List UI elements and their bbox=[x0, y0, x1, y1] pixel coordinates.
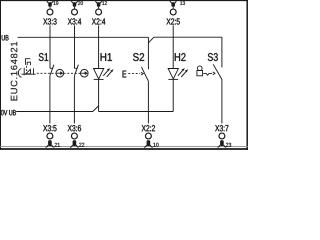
wire S2 bottom to X2:2 bbox=[147, 81, 149, 123]
wire X2:5 to H2 bbox=[172, 25, 174, 68]
contact S3 blade bbox=[213, 64, 222, 79]
wire X2:4 to H1 bbox=[98, 25, 100, 68]
switch S2 label bbox=[133, 53, 144, 61]
wire S1b bottom to X3:6 bbox=[73, 76, 75, 124]
wire UB branch diagonal bbox=[148, 37, 154, 43]
wire 0V diagonal jog bbox=[93, 106, 99, 112]
wire X3:3 to S1 contact a bbox=[49, 25, 51, 68]
switch S1 mechanical dashed link bbox=[37, 72, 56, 74]
positive-opening symbol S1b bbox=[81, 69, 89, 77]
terminal X3:4 top bbox=[68, 1, 83, 24]
terminal X2:5 top bbox=[166, 1, 185, 24]
rail label 0V UB bbox=[1, 110, 16, 115]
S3 lock symbol body bbox=[197, 71, 203, 76]
terminal X3:6 bottom bbox=[68, 125, 85, 147]
contact S1a blade bbox=[50, 65, 54, 76]
positive-opening symbol S1a bbox=[56, 69, 64, 77]
label E actuation of S2 bbox=[123, 71, 127, 78]
terminal X3:5 bottom bbox=[43, 125, 60, 147]
wire UB branch to S3 bbox=[154, 36, 222, 38]
open arrowhead at S3 blade bbox=[213, 72, 215, 75]
switch S1 actuator base line bbox=[22, 73, 36, 75]
wire S3 drop bbox=[221, 37, 223, 67]
switch S1 actuator wedge bbox=[26, 69, 31, 74]
terminal X3:7 bottom bbox=[215, 125, 231, 147]
LED H2 emission arrows bbox=[178, 68, 188, 77]
S3 mechanical link with detent bbox=[203, 74, 212, 76]
wire H1 cathode drop bbox=[98, 79, 100, 111]
LED H1 cathode bar bbox=[94, 78, 104, 80]
contact S1a seat bbox=[50, 67, 53, 69]
switch S1 actuator bar bbox=[23, 68, 25, 75]
border frame bbox=[0, 0, 248, 2]
LED H2 label bbox=[175, 53, 186, 61]
wire X3:4 to S1 contact b bbox=[74, 25, 76, 68]
switch S1 actuator door arc bbox=[18, 69, 21, 78]
LED H2 triangle bbox=[168, 69, 178, 80]
switch S1 actuator tick bbox=[33, 68, 35, 74]
wire S3 bottom to X3:7 bbox=[221, 80, 223, 124]
LED H1 emission arrows bbox=[103, 68, 113, 77]
contact S2 blade bbox=[142, 67, 149, 81]
bottom connector rail bbox=[0, 146, 248, 148]
switch S1 actuator hooks bbox=[26, 59, 31, 65]
open arrowhead at S2 blade bbox=[141, 72, 143, 75]
LED H1 triangle bbox=[94, 69, 104, 80]
LED H1 label bbox=[101, 53, 112, 61]
contact S1b seat bbox=[75, 67, 78, 69]
switch S1 actuator dashed stem bbox=[26, 66, 28, 72]
dashed link E to S2 bbox=[128, 73, 140, 75]
wire 0V bus bbox=[16, 111, 93, 113]
terminal X2:2 bottom bbox=[142, 125, 159, 147]
switch S1 label bbox=[39, 53, 48, 61]
S3 lock symbol circle bbox=[198, 66, 203, 71]
terminal X2:4 top bbox=[92, 1, 107, 24]
contact S1b blade bbox=[74, 65, 78, 76]
rail label UB bbox=[2, 35, 9, 40]
switch S3 label bbox=[208, 53, 218, 61]
wire UB bus bbox=[18, 36, 149, 38]
wire H2 cathode drop bbox=[172, 79, 174, 111]
wire LED cathode line bbox=[99, 111, 174, 113]
wire S1a bottom to X3:5 bbox=[49, 76, 51, 124]
LED H2 cathode bar bbox=[168, 78, 178, 80]
part number EUC.164821 vertical bbox=[11, 42, 18, 101]
wire UB corner drop to S2 bbox=[147, 37, 149, 69]
terminal X3:3 top bbox=[43, 1, 58, 24]
